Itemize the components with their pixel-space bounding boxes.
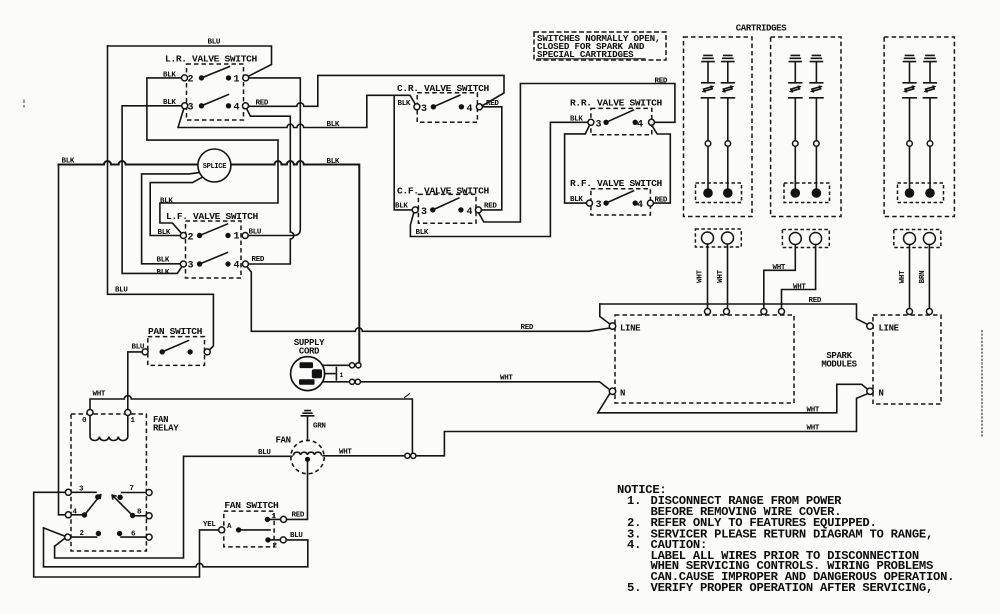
svg-text:4.: 4. [627,538,641,552]
switch L.R. VALVE SWITCH box [187,64,244,120]
supply cord center prong [312,369,322,378]
left module top terminals [705,309,711,315]
svg-text:RED: RED [655,78,668,86]
fan relay pin 2 contact [71,536,97,538]
wire BLK: R.R. pin 3 diagonal down to R.F. pin 3 [565,122,591,203]
wire WHT: relay coil terminal 0 over to fan connector (hop at x=128) [90,396,412,453]
cartridge 1 connector box [695,229,741,247]
svg-text:BLK: BLK [62,158,75,166]
svg-text:BLK: BLK [570,196,583,204]
svg-text:RED: RED [252,256,265,264]
switch L.F. VALVE SWITCH row 2 contacts [197,261,202,266]
wire BLK: bus left drop to fan relay pins 3/4 [59,165,66,515]
svg-text:4: 4 [234,103,240,114]
svg-text:SPLICE: SPLICE [203,163,227,171]
left module N terminal [609,388,615,394]
fan dashed circle [291,440,324,473]
svg-text:N: N [620,389,625,399]
svg-text:1: 1 [131,417,136,425]
fan switch pin A [236,527,241,532]
switch C.F. VALVE SWITCH box [418,194,476,223]
svg-text:WHT: WHT [697,269,705,282]
fan switch box [224,511,274,547]
fan relay pin 7 contact [122,492,147,494]
svg-text:WHT: WHT [807,407,820,415]
fan relay coil terminal 1 [125,410,131,416]
svg-text:WHT: WHT [807,425,820,433]
switch C.R. VALVE SWITCH box [417,93,477,122]
wire RED: L.R. pin 4 diagonal down to L.F. pin 4 (hop over pin1 wire) [246,106,294,264]
svg-text:RED: RED [484,203,497,211]
svg-text:BLK: BLK [157,257,170,265]
right module N terminal [867,388,873,394]
svg-text:BLU: BLU [258,449,271,457]
cartridge 1 igniter element [721,55,734,197]
svg-text:N: N [879,389,884,399]
svg-text:2: 2 [188,75,194,86]
svg-text:4: 4 [467,104,473,115]
junction tick on WHT line [405,394,410,398]
switch L.R. VALVE SWITCH blade [202,67,230,78]
fan relay blade 8-7 with arrow [112,495,132,515]
svg-text:BLK: BLK [163,99,176,107]
fan switch pin 2 [268,539,283,541]
scan artifact: left margin specks [23,100,25,108]
wire BLU: left drop from top run to pan switch right pin [108,46,214,351]
svg-text:BLK: BLK [327,158,340,166]
wire WHT: left module N link to right module N [598,384,867,413]
wire BLK: splice upper diagonal to L.F. pin 3 [142,172,201,263]
wire BLK: main splice bus with crossing hops, down to supply cord connector [59,161,360,362]
svg-text:L.F. VALVE SWITCH: L.F. VALVE SWITCH [166,211,259,222]
wire: relay pin 3 left, down, bottom run, up to fan switch A (YEL) [34,492,219,577]
svg-text:3: 3 [421,104,427,115]
wire: left module LINE up to spark bus [600,304,610,324]
fan relay blade 4-3 with arrow [85,495,101,515]
switch PAN SWITCH row 1 contacts [160,349,165,354]
wire: relay pin 2 lower arrow stroke [55,538,65,546]
switch L.F. VALVE SWITCH row 1 contacts [197,233,202,238]
supply cord neutral prong [299,379,315,385]
switch L.R. VALVE SWITCH row 1 contacts [199,75,204,80]
svg-text:WHT: WHT [500,375,513,383]
wire WHT: cartridge1 right lead to spark module [727,244,729,308]
left module LINE terminal [609,323,615,329]
switch C.R. VALVE SWITCH row 1 contacts [431,104,436,109]
svg-text:C.R. VALVE SWITCH: C.R. VALVE SWITCH [397,83,490,94]
right module LINE terminal [867,323,873,329]
svg-text:RED: RED [521,324,534,332]
wire WHT: cartridge2 left lead jog to spark module [764,245,796,309]
switch L.R. VALVE SWITCH row 2 contacts [199,103,204,108]
switch R.F. VALVE SWITCH row 1 contacts [603,200,608,205]
supply cord hot prong [300,362,314,368]
svg-text:WHT: WHT [899,270,907,283]
connector circles on fan WHT lead [405,453,410,458]
switch L.F. VALVE SWITCH blade [200,224,228,236]
svg-text:BRN: BRN [919,271,927,284]
splice circle [198,149,231,182]
cartridge 3 inner terminal box [898,183,944,203]
switch C.R. VALVE SWITCH blade [433,95,459,107]
svg-text:RED: RED [809,297,822,305]
wire BLK: splice lower diagonal to L.F. pin 2 [150,177,203,236]
ground symbol above fan [301,411,313,416]
svg-text:WHT: WHT [773,264,786,272]
svg-text:BLU: BLU [115,287,128,295]
switch C.F. VALVE SWITCH blade [433,198,459,210]
svg-text:1: 1 [234,75,240,86]
svg-text:L.R. VALVE SWITCH: L.R. VALVE SWITCH [165,54,258,65]
cartridge 3 igniter element [923,55,936,197]
svg-text:BLK: BLK [160,198,173,206]
fan relay coil [90,413,128,441]
svg-text:RED: RED [655,197,668,205]
cartridge 1 connector terminals [702,232,714,244]
wire BRN: cartridge3 right lead to right module [928,245,930,309]
scan artifact: page right margin line [981,330,983,437]
svg-text:4: 4 [637,119,643,130]
fan relay box [71,414,146,551]
wire: vertical C.R. pin3 to C.F. pin3 [394,95,412,210]
svg-text:MODULES: MODULES [821,360,857,370]
switch L.F. VALVE SWITCH blade [200,253,228,265]
svg-text:BLU: BLU [290,532,303,540]
svg-text:3: 3 [188,103,194,114]
wire BLU: L.R. pin 1 down to L.F. pin 1 (hook) [246,78,301,236]
svg-text:WHT: WHT [93,391,106,399]
connector circles on supply hot lead [350,363,355,368]
wire RED: L.R. pin 4 up over to C.R. pin 4 (hop at x=300) [246,75,505,106]
svg-text:R.R. VALVE SWITCH: R.R. VALVE SWITCH [570,98,663,109]
wire WHT: cartridge3 left lead to right module [909,245,911,309]
svg-text:FAN SWITCH: FAN SWITCH [224,500,279,511]
wire: relay pin 2 upper arrow line to fan switch pin 2 (BLU) [44,528,308,567]
switch R.R. VALVE SWITCH row 1 contacts [603,120,608,125]
svg-text:BLK: BLK [163,72,176,80]
cartridge 3 connector terminals [904,233,916,245]
wire RED: L.F. pin 4 diagonal down, long run to left module LINE (hop at x=358) [247,267,610,332]
svg-text:LINE: LINE [879,324,900,334]
switch R.F. VALVE SWITCH box [591,189,651,215]
svg-text:BLK: BLK [398,100,411,108]
svg-text:BLK: BLK [157,269,170,277]
switch L.F. VALVE SWITCH box [186,221,242,278]
wire: L.F. pin 1 right stub [245,235,293,237]
svg-text:1: 1 [340,372,344,379]
fan relay pin 8 contact [134,515,146,517]
cartridge 2 connector box [782,230,829,248]
svg-text:RELAY: RELAY [153,424,179,434]
cartridge 1 inner terminal box [696,183,742,203]
svg-text:BLK: BLK [570,115,583,123]
svg-text:BLU: BLU [249,229,262,237]
fan relay pin 3 contact [71,491,96,493]
wire BLK: C.F. pin 3 diagonal to pin-3 bus to R.R. pin 3 [410,122,588,236]
wire RED: C.R. pin 4 down to C.F. pin 4 [481,107,502,210]
switch PAN SWITCH blade [162,341,188,352]
svg-text:4: 4 [234,261,240,272]
fan relay pin 4 contact [71,514,83,516]
svg-text:BLK: BLK [158,229,171,237]
svg-text:2: 2 [273,543,278,551]
cartridge 2 box [771,37,841,217]
cartridge 3 connector box [894,230,941,248]
cartridge 2 inner terminal box [784,183,830,203]
connector circles on supply neutral lead [350,379,355,384]
wire WHT: supply cord neutral long run to left spark module N [315,382,610,390]
supply cord circle [291,357,325,391]
cartridge 2 igniter element [810,55,823,197]
svg-text:CARTRIDGES: CARTRIDGES [736,24,787,34]
svg-text:GRN: GRN [313,423,326,431]
svg-text:A: A [227,523,232,531]
svg-text:WHT: WHT [793,284,806,292]
svg-text:R.F. VALVE SWITCH: R.F. VALVE SWITCH [570,178,663,189]
svg-text:3: 3 [188,261,194,272]
cartridge 2 connector terminals [789,233,801,245]
wire BLK: L.R. pin 3 down to L.F. pin 3 lower wire [122,106,185,274]
wire: supply cord hot prong to connector [313,364,350,366]
wire BLU: pan switch left pin down to relay coil terminal 1 [128,352,145,410]
svg-text:BLU: BLU [132,344,145,352]
wire RED: R.R. pin 4 top run to C.F. pin 4 lower diagonal [479,84,675,223]
svg-text:BLK: BLK [395,203,408,211]
svg-text:7: 7 [130,485,134,493]
svg-text:WHT: WHT [717,269,725,282]
cartridge 3 box [884,37,954,217]
svg-text:WHT: WHT [339,449,352,457]
svg-text:4: 4 [637,200,643,211]
svg-text:BLK: BLK [416,229,429,237]
svg-text:5.: 5. [627,581,641,595]
wire RED: spark module bus to right module LINE [600,304,867,324]
switch R.R. VALVE SWITCH blade [606,110,633,122]
switch PAN SWITCH box [148,337,205,366]
wire RED: R.R. pin 4 diagonal down to R.F. pin 4 [652,125,671,203]
fan relay coil terminal 0 [87,410,93,416]
cartridge 2 igniter element [789,55,802,197]
switch R.R. VALVE SWITCH box [591,108,652,134]
fan relay pin 6 contact [121,536,146,538]
cartridge 1 box [684,37,753,217]
wire WHT: fan right through connector to right spark module N [323,394,867,456]
svg-text:3: 3 [421,207,427,218]
wire: fan top to ground [307,416,309,441]
svg-text:1: 1 [234,232,240,243]
svg-text:YEL: YEL [203,521,216,529]
wire BLK: L.R. pin 2 to L.F. pin 2 feed (long zigzag) [147,78,278,235]
wire RED: fan bottom to fan switch pin 1 [287,460,308,520]
svg-text:3: 3 [596,200,602,211]
notice box switches normally open [534,32,666,60]
svg-text:1.: 1. [627,494,641,508]
wire: supply cord center prong to filter [322,373,335,375]
svg-text:PAN SWITCH: PAN SWITCH [148,326,203,337]
wire WHT: cartridge2 right lead jog to spark module [782,245,816,309]
cartridge 3 igniter element [903,55,916,197]
svg-text:VERIFY PROPER OPERATION AFTER: VERIFY PROPER OPERATION AFTER SERVICING, [651,581,934,595]
svg-text:LINE: LINE [620,324,641,334]
switch R.F. VALVE SWITCH blade [606,191,633,203]
svg-text:RED: RED [256,100,269,108]
wire BLK: L.R. pin 3 diagonal to C.R. pin 3 (hops at x=290,300) [178,95,417,127]
svg-text:2: 2 [188,233,194,244]
spark module right box [873,315,941,404]
svg-text:0: 0 [82,417,87,425]
right module top terminals [907,309,913,315]
svg-text:BLK: BLK [327,121,340,129]
supply cord filter plate [335,368,337,380]
wire: relay pin 2 lower arrow line to fan BLU wire [55,456,292,558]
switch L.R. VALVE SWITCH blade [202,95,229,106]
svg-text:RED: RED [486,100,499,108]
fan center terminal dot [305,457,310,462]
svg-text:C.F. VALVE SWITCH: C.F. VALVE SWITCH [397,186,490,197]
svg-text:4: 4 [467,207,473,218]
svg-text:3: 3 [596,119,602,130]
switch C.F. VALVE SWITCH row 1 contacts [430,207,435,212]
fan winding [294,452,322,455]
svg-text:CORD: CORD [299,347,320,357]
fan switch pin 1 [267,518,283,520]
svg-text:FAN: FAN [276,436,291,446]
wire WHT: cartridge1 left lead to spark module [707,244,709,308]
wire: relay pin 2 upper arrow stroke [44,528,65,536]
cartridge 1 igniter element [701,55,714,197]
svg-text:RED: RED [292,512,305,520]
wire BLU: top run to L.R. pin 1 [108,46,272,77]
svg-text:BLU: BLU [208,39,221,47]
spark module left box [615,315,794,403]
